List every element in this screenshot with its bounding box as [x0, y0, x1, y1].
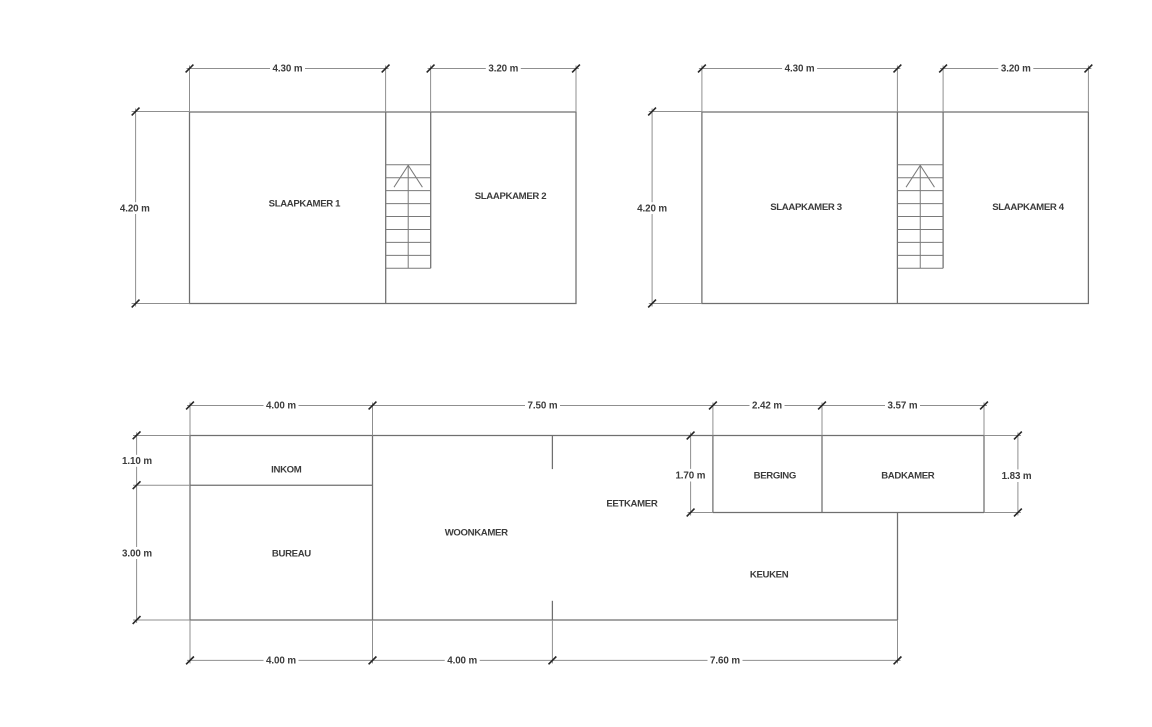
svg-text:BERGING: BERGING: [754, 471, 796, 482]
plan B top dim ticks: [698, 65, 706, 73]
plan B left dimension line 4.20 m: [651, 109, 653, 203]
plan C woonkamer/eetkamer wall stub bottom: [551, 601, 553, 620]
svg-text:EETKAMER: EETKAMER: [606, 499, 657, 510]
svg-text:3.00 m: 3.00 m: [122, 548, 152, 559]
plan C top dim extension lines: [189, 403, 191, 436]
svg-text:1.70 m: 1.70 m: [675, 471, 705, 482]
plan C bottom exterior wall: [190, 619, 898, 621]
svg-text:4.30 m: 4.30 m: [785, 64, 815, 75]
plan C berging height dimension 1.70 m: [690, 433, 692, 469]
svg-text:SLAAPKAMER 4: SLAAPKAMER 4: [992, 202, 1065, 213]
plan C bottom dim extension lines: [189, 620, 191, 663]
plan B left dim extension lines: [649, 111, 702, 113]
plan C left dimension line 1.10/3.00 m: [136, 432, 138, 455]
plan B top dim extension lines: [701, 66, 703, 113]
svg-text:2.42 m: 2.42 m: [752, 401, 782, 412]
plan A top dim extension lines: [189, 66, 191, 113]
plan A top dimension line 3.20 m span: [428, 68, 486, 70]
plan C keuken right exterior wall: [897, 513, 899, 621]
plan C berging/badkamer bottom wall: [713, 512, 984, 514]
plan B top dimension line 4.30 m span: [699, 68, 782, 70]
plan C woonkamer/eetkamer wall stub top: [551, 436, 553, 470]
svg-text:SLAAPKAMER 1: SLAAPKAMER 1: [269, 198, 342, 209]
svg-text:1.83 m: 1.83 m: [1002, 471, 1032, 482]
plan C inkom/bureau divider wall: [190, 484, 373, 486]
plan B top dimension line 3.20 m span: [940, 68, 998, 70]
svg-text:7.60 m: 7.60 m: [710, 656, 740, 667]
plan C left dim ticks: [133, 431, 141, 439]
plan C top exterior wall: [190, 435, 984, 437]
plan A top dimension line 4.30 m span: [187, 68, 271, 70]
plan B staircase treads + direction arrow: [897, 164, 943, 166]
plan C top dim ticks: [186, 402, 194, 410]
plan A stairwell left wall: [385, 112, 387, 304]
svg-text:WOONKAMER: WOONKAMER: [445, 528, 508, 539]
plan A left dim ticks: [132, 108, 140, 116]
svg-text:BUREAU: BUREAU: [272, 548, 311, 559]
plan C badkamer right exterior wall: [983, 436, 985, 513]
plan A stairwell right wall: [430, 112, 432, 268]
svg-text:SLAAPKAMER 2: SLAAPKAMER 2: [475, 191, 547, 202]
svg-text:SLAAPKAMER 3: SLAAPKAMER 3: [770, 202, 842, 213]
plan C berging left wall: [712, 436, 714, 513]
svg-text:INKOM: INKOM: [271, 464, 302, 475]
svg-text:4.00 m: 4.00 m: [266, 401, 296, 412]
plan A left dim extension lines: [132, 111, 190, 113]
plan A left dimension line 4.20 m: [135, 109, 137, 203]
svg-text:3.20 m: 3.20 m: [488, 64, 518, 75]
svg-text:4.00 m: 4.00 m: [447, 656, 477, 667]
svg-text:KEUKEN: KEUKEN: [750, 569, 789, 580]
plan C bottom dimension line 4.00/4.00/7.60: [187, 659, 264, 661]
plan C left dim extension lines: [133, 435, 190, 437]
svg-text:4.20 m: 4.20 m: [120, 204, 150, 215]
plan C badkamer height dimension 1.83 m: [1017, 433, 1019, 470]
plan B stairwell right wall: [942, 112, 944, 268]
plan C left exterior wall: [189, 436, 191, 621]
plan A outer walls (slaapkamer 1+2): [190, 112, 577, 304]
svg-text:BADKAMER: BADKAMER: [881, 471, 935, 482]
svg-text:4.30 m: 4.30 m: [273, 64, 303, 75]
plan B outer walls (slaapkamer 3+4): [702, 112, 1089, 304]
plan C bottom dim ticks: [186, 657, 194, 665]
svg-text:3.20 m: 3.20 m: [1001, 64, 1031, 75]
svg-text:4.00 m: 4.00 m: [266, 656, 296, 667]
svg-text:4.20 m: 4.20 m: [637, 204, 667, 215]
plan A staircase treads + direction arrow: [386, 164, 431, 166]
plan A top dim ticks: [186, 65, 194, 73]
plan C top dimension line 4.00/7.50/2.42/3.57: [187, 405, 264, 407]
plan B stairwell left wall: [896, 112, 898, 304]
svg-text:7.50 m: 7.50 m: [528, 401, 558, 412]
plan B left dim ticks: [648, 108, 656, 116]
plan C bureau right wall: [372, 436, 374, 621]
svg-text:3.57 m: 3.57 m: [888, 401, 918, 412]
plan C berging/badkamer divider wall: [821, 436, 823, 513]
svg-text:1.10 m: 1.10 m: [122, 456, 152, 467]
